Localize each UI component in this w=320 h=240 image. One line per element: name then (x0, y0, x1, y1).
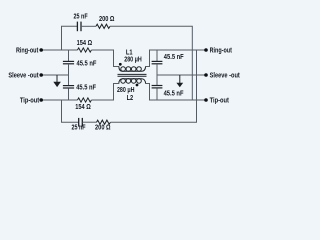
svg-text:Sleeve -out: Sleeve -out (210, 72, 241, 79)
wire top mid (81, 25, 96, 27)
wire bottom mid (82, 121, 96, 123)
svg-text:45.5 nF: 45.5 nF (76, 85, 96, 92)
phase dot L1 (119, 63, 122, 66)
left shunt branch vertical (68, 50, 70, 61)
svg-text:L2: L2 (127, 95, 134, 102)
capacitor 45.5 nF (upper right) (152, 61, 163, 63)
wire tip left feed down to bottom path (62, 100, 79, 122)
wire bottom right + rail B up to ring-right (110, 50, 196, 122)
svg-text:Ring-out: Ring-out (210, 48, 233, 55)
node sleeve-out left (39, 73, 43, 77)
resistor 200 ohm (bottom) (97, 120, 111, 124)
wire L2 right step to tip-right (146, 84, 206, 101)
wire top path left vertical (62, 26, 78, 50)
capacitor 45.5 nF (lower right) (152, 86, 163, 88)
capacitor 45.5 nF (lower left) (63, 86, 74, 88)
inductor L1 (119, 66, 146, 71)
resistor 154 ohm (tip left) (78, 98, 92, 102)
svg-text:200 Ω: 200 Ω (99, 16, 115, 23)
transformer core (118, 74, 147, 76)
svg-text:Ring-out: Ring-out (16, 48, 39, 55)
svg-text:Tip-out: Tip-out (210, 98, 230, 105)
wire L1 right step to ring-right (146, 50, 206, 67)
ground arrow left stub (56, 75, 58, 82)
wire sleeve-out left (41, 74, 68, 76)
svg-text:154 Ω: 154 Ω (75, 104, 91, 111)
wire top right + rail A down to tip-right (110, 26, 192, 100)
right shunt branch vertical (156, 50, 158, 61)
svg-text:25 nF: 25 nF (71, 125, 86, 132)
svg-text:45.5 nF: 45.5 nF (164, 90, 184, 97)
svg-text:L1: L1 (126, 50, 133, 57)
svg-text:280 μH: 280 μH (117, 87, 135, 94)
svg-text:Sleeve -out: Sleeve -out (8, 72, 39, 79)
svg-text:Tip-out: Tip-out (20, 98, 40, 105)
wire ring left to L1 step (91, 50, 118, 67)
resistor 154 ohm (ring left) (78, 48, 92, 52)
wire tip left to L2 step (91, 84, 118, 101)
wire tip-out left (41, 99, 77, 101)
capacitor 25 nF (bottom) (79, 118, 83, 127)
node sleeve-out right (204, 73, 208, 77)
node ring-out left (39, 48, 43, 52)
resistor 200 ohm (top) (96, 24, 110, 28)
svg-text:154 Ω: 154 Ω (77, 40, 93, 47)
svg-text:45.5 nF: 45.5 nF (77, 60, 97, 67)
capacitor 25 nF (top) (77, 22, 81, 32)
ground arrow left head (53, 82, 61, 87)
svg-text:25 nF: 25 nF (74, 13, 89, 20)
node tip-out left (39, 98, 43, 102)
node ring-out right (204, 48, 208, 52)
capacitor 45.5 nF (upper left) (63, 61, 74, 63)
phase dot L2 (136, 84, 139, 87)
svg-text:280 μH: 280 μH (124, 57, 142, 64)
svg-text:200 Ω: 200 Ω (95, 125, 111, 132)
svg-text:45.5 nF: 45.5 nF (164, 54, 184, 61)
inductor L2 (119, 79, 146, 84)
ground arrow right stub (179, 75, 181, 83)
wire ring-out left (41, 49, 77, 51)
wire sleeve-out right (157, 74, 206, 76)
ground arrow right head (176, 83, 183, 87)
node tip-out right (204, 98, 208, 102)
